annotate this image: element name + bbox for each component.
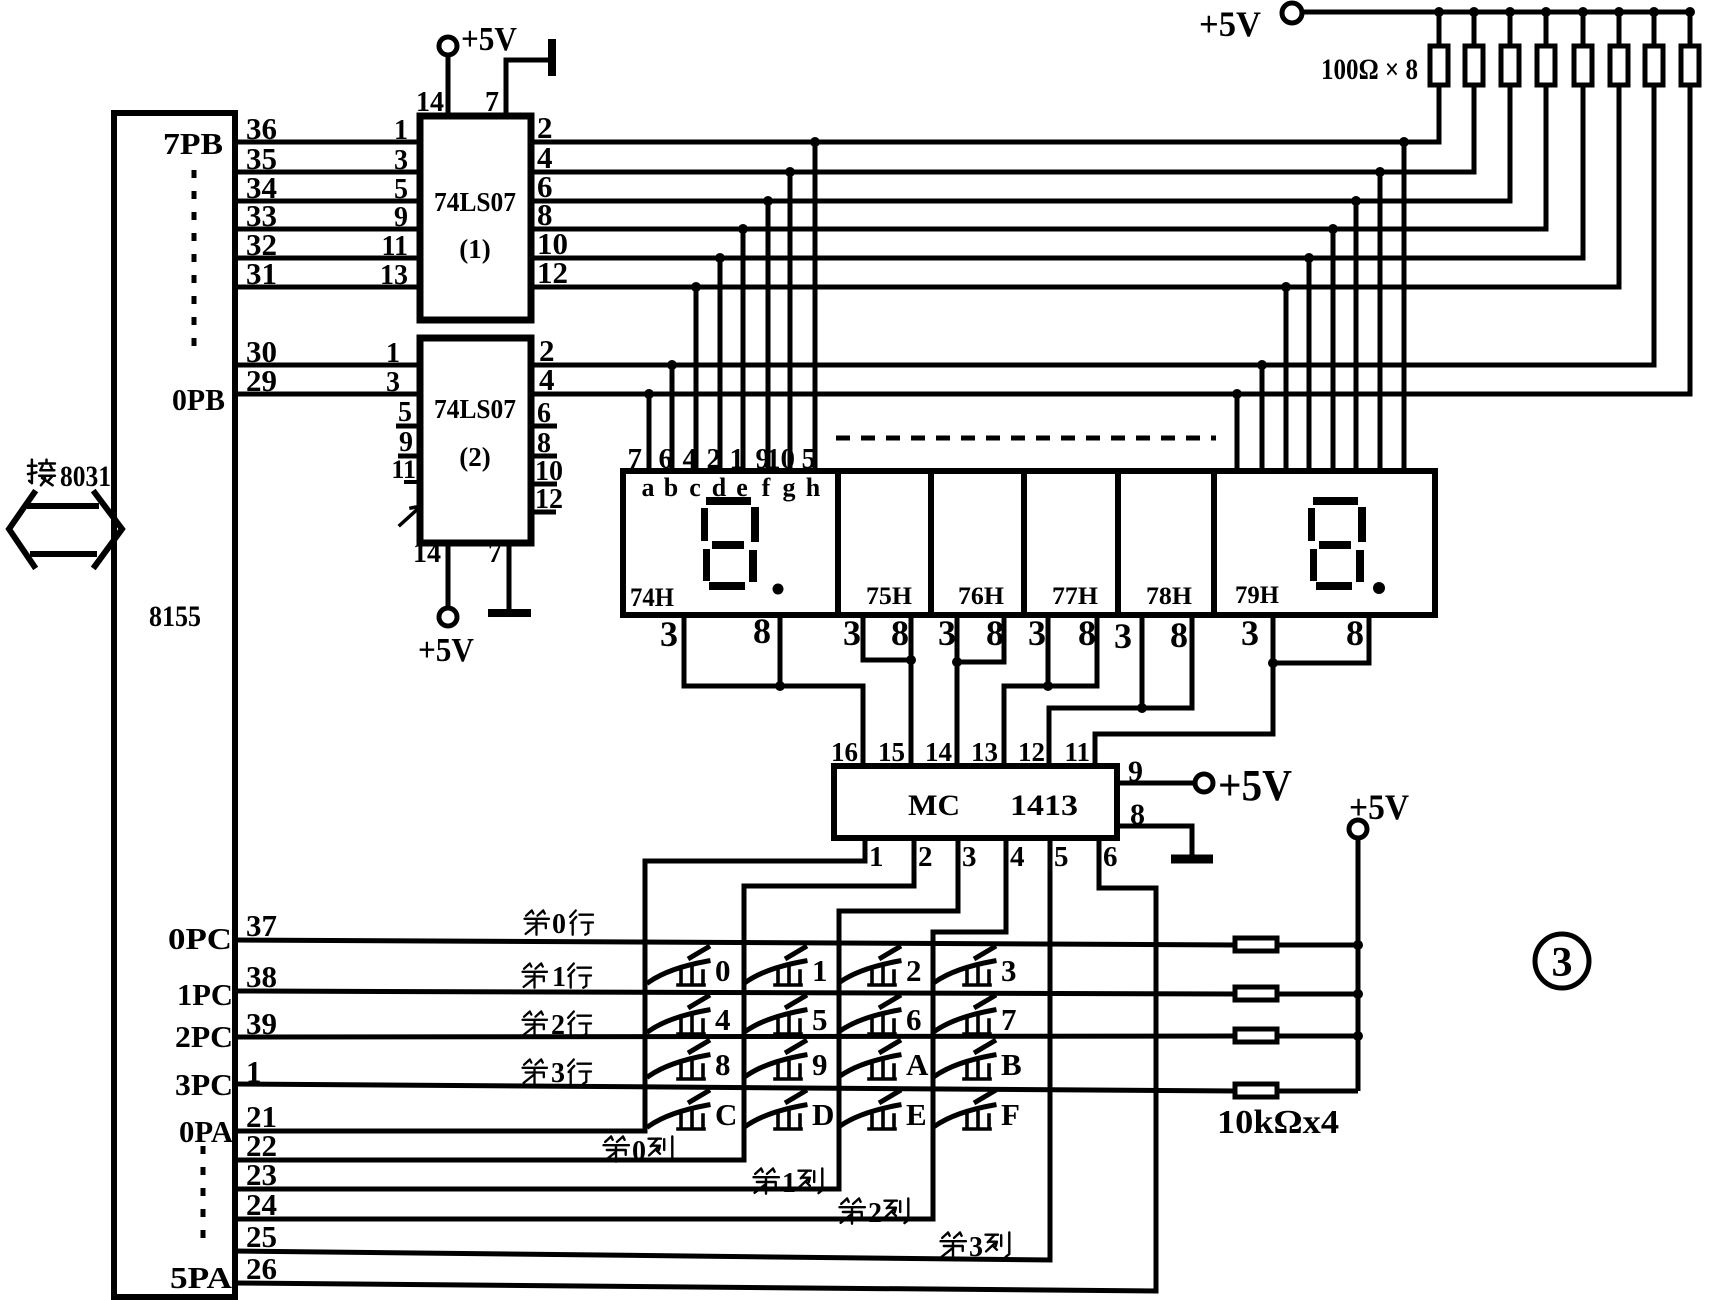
segment net g wire (U2 output to R2) (531, 85, 1474, 172)
resistor R11 10k body (1235, 1029, 1277, 1042)
label row2 第2行 (523, 1012, 548, 1036)
svg-text:8: 8 (1078, 613, 1096, 653)
wire U4 pin 8 to ground (1117, 826, 1192, 855)
svg-text:2: 2 (918, 841, 933, 873)
svg-text:+5V: +5V (1349, 787, 1409, 827)
svg-text:78H: 78H (1146, 583, 1193, 610)
svg-text:8031: 8031 (60, 460, 111, 493)
resistor R2 100ohm lead (1472, 12, 1477, 46)
key 0 (switch) (649, 946, 731, 988)
svg-text:77H: 77H (1052, 583, 1099, 610)
svg-text:14: 14 (413, 538, 441, 569)
wire U4 pin 2 to column 1 (744, 838, 914, 1160)
junction dot +5V bus at R6 (1614, 7, 1624, 17)
resistor R9 10k body (1235, 938, 1277, 951)
key 1 (switch) (746, 946, 828, 988)
wire U4 pin 6 route (1099, 838, 1156, 1291)
label row0 第0行 (525, 911, 550, 935)
resistor R8 100ohm lead (1688, 12, 1693, 46)
svg-text:2: 2 (868, 1198, 882, 1229)
U3 pin 10 stub (531, 482, 557, 487)
IC U3 74LS07(2) body (420, 338, 531, 543)
junction dot +5V keypad bus row 0 (1353, 940, 1363, 950)
key E (switch) (840, 1090, 927, 1132)
wire U3 pin 7 to ground (507, 543, 512, 610)
svg-text:10: 10 (766, 443, 795, 475)
svg-text:1: 1 (812, 953, 828, 988)
junction dot net a left display (644, 389, 654, 399)
segment net c wire (U2 output to R6) (531, 85, 1619, 287)
display DS2 75H body (838, 471, 931, 615)
wire 8155 pin 38 keypad row 1 (235, 991, 1235, 994)
junction dot net f left display (763, 196, 773, 206)
resistor R7 100ohm body (1645, 46, 1663, 85)
svg-text:5: 5 (394, 174, 408, 205)
svg-text:F: F (1001, 1097, 1020, 1132)
svg-text:3: 3 (1114, 616, 1132, 656)
junction dot +5V bus at R1 (1434, 7, 1444, 17)
+5V terminal (U2 pin 14) (439, 37, 457, 55)
resistor R12 10k body (1235, 1084, 1277, 1097)
junction dot net e left display (738, 224, 748, 234)
wire U2 pin 7 to ground (506, 60, 547, 116)
IC U4 MC1413 body (834, 766, 1117, 838)
svg-text:7PB: 7PB (163, 126, 223, 161)
U3 pin 11 stub (404, 480, 420, 484)
resistor R6 100ohm lead (1617, 12, 1622, 46)
U3 pin 12 stub (531, 510, 556, 515)
svg-text:8: 8 (1170, 615, 1188, 655)
resistor R4 100ohm body (1537, 46, 1555, 85)
svg-text:2: 2 (707, 443, 722, 475)
junction dot DS6 common (1268, 658, 1278, 668)
junction dot net a right display (1232, 389, 1242, 399)
wire segment f drop to DS6 79H (1354, 201, 1359, 471)
+5V bus wire (top) (1302, 10, 1692, 15)
wire DS2 pin 8 to U4 pin 15 (909, 615, 914, 766)
junction dot +5V bus at R2 (1469, 7, 1479, 17)
wire 8155 pin 33 to U2 pin 9 (235, 227, 420, 232)
U3 pin 5 stub (396, 424, 420, 429)
U3 pin 8 stub (531, 454, 557, 459)
wire 8155 pin 36 to U2 pin 1 (235, 140, 420, 145)
wire 8155 pin 34 to U2 pin 5 (235, 199, 420, 204)
DS1 digit 8 (701, 497, 759, 590)
junction dot net g left display (785, 167, 795, 177)
svg-text:g: g (783, 473, 796, 502)
junction dot net b right display (1257, 360, 1267, 370)
svg-text:3: 3 (938, 613, 956, 653)
svg-text:6: 6 (659, 443, 674, 475)
junction dot net f right display (1351, 196, 1361, 206)
wire segment e drop to DS6 79H (1331, 229, 1336, 471)
svg-text:5: 5 (812, 1002, 828, 1037)
junction dot DS4 common (1043, 681, 1053, 691)
svg-text:15: 15 (878, 737, 905, 767)
junction dot net e right display (1328, 224, 1338, 234)
junction dot +5V bus at R5 (1578, 7, 1588, 17)
junction dot +5V keypad bus row 2 (1353, 1031, 1363, 1041)
svg-text:8: 8 (986, 613, 1004, 653)
wire segment e drop to DS1 74H (741, 229, 746, 471)
svg-text:E: E (906, 1097, 927, 1132)
svg-text:1: 1 (869, 841, 884, 873)
wire DS6 pin 3 drop (1271, 615, 1276, 734)
wire DS2 pin 3 drop (863, 615, 911, 660)
wire U4 pin 4 to column 3 (933, 838, 1006, 1219)
resistor R5 100ohm lead (1581, 12, 1586, 46)
wire DS1 common to U4 pin 16 (684, 686, 863, 766)
svg-text:3: 3 (1241, 613, 1259, 653)
resistor R5 100ohm body (1574, 46, 1592, 85)
junction dot DS2 common (906, 655, 916, 665)
svg-text:6: 6 (1103, 841, 1118, 873)
svg-text:75H: 75H (866, 583, 913, 610)
wire 8155 pin 30 to U3 pin 1 (235, 363, 420, 368)
svg-text:7: 7 (488, 538, 502, 569)
svg-text:1: 1 (730, 443, 745, 475)
svg-text:1: 1 (386, 338, 400, 369)
wire 8155 pin 31 to U2 pin 13 (235, 285, 420, 290)
svg-text:C: C (715, 1097, 737, 1132)
svg-text:2: 2 (551, 1010, 565, 1041)
label col0 第0列 (604, 1137, 629, 1162)
resistor R7 100ohm lead (1652, 12, 1657, 46)
wire 8155 pin 35 to U2 pin 3 (235, 170, 420, 175)
DS1 decimal point (773, 584, 784, 595)
ground symbol (U4 pin 8) (1171, 855, 1213, 864)
junction dot net h right display (1399, 137, 1409, 147)
svg-text:0PC: 0PC (168, 921, 232, 956)
wire row 3 resistor to +5V bus (1277, 1089, 1358, 1094)
wire DS3 pin 3 to U4 pin 14 (955, 615, 960, 766)
junction dot +5V bus at R8 (1685, 7, 1695, 17)
svg-text:A: A (906, 1047, 929, 1082)
junction dot net c right display (1281, 282, 1291, 292)
IC U2 74LS07(1) body (420, 116, 531, 320)
svg-text:11: 11 (382, 231, 408, 262)
svg-text:74LS07: 74LS07 (434, 394, 516, 424)
svg-text:+5V: +5V (1218, 761, 1292, 810)
wire 8155 pin 24 to column 3 (235, 1217, 933, 1222)
resistor R3 100ohm lead (1508, 12, 1513, 46)
svg-text:(2): (2) (459, 442, 490, 472)
svg-text:100Ω × 8: 100Ω × 8 (1321, 53, 1418, 86)
wire DS5 pin 3 drop (1140, 615, 1145, 708)
U3 pin 9 stub (398, 454, 420, 459)
figure number 3 (circled) (1535, 934, 1589, 988)
8155 internal dashed divider (PB) (192, 170, 197, 358)
svg-text:3: 3 (962, 841, 977, 873)
junction dot DS3 common (952, 657, 962, 667)
svg-text:4: 4 (1010, 841, 1025, 873)
svg-text:1: 1 (394, 115, 408, 146)
wire 8155 pin 29 to U3 pin 3 (235, 392, 420, 397)
wire 8155 pin 37 keypad row 0 (235, 940, 1235, 945)
svg-text:1: 1 (552, 962, 566, 993)
svg-text:3PC: 3PC (175, 1067, 233, 1102)
svg-text:2: 2 (906, 953, 922, 988)
wire segment b drop to DS6 79H (1260, 365, 1265, 471)
svg-text:9: 9 (394, 202, 408, 233)
key 7 (switch) (935, 995, 1017, 1037)
resistor R1 100ohm body (1430, 46, 1448, 85)
svg-text:D: D (812, 1097, 834, 1132)
wire segment a drop to DS6 79H (1235, 394, 1240, 471)
svg-text:a: a (642, 473, 655, 502)
junction dot net d right display (1304, 253, 1314, 263)
+5V terminal (segment pull-up bus) (1282, 3, 1302, 23)
svg-text:14: 14 (925, 737, 952, 767)
wire U4 pin 9 to +5V (1117, 781, 1195, 786)
wire segment d drop to DS1 74H (718, 258, 723, 471)
+5V terminal (U3 pin 14) (439, 608, 457, 626)
wire segment a drop to DS1 74H (647, 394, 652, 471)
label col1 第1列 (754, 1169, 779, 1194)
svg-text:3: 3 (660, 614, 678, 654)
label col3 第3列 (941, 1233, 966, 1258)
wire segment f drop to DS1 74H (766, 201, 771, 471)
svg-text:+5V: +5V (1199, 4, 1261, 44)
svg-text:74LS07: 74LS07 (434, 187, 516, 217)
wire 8155 pin 1 keypad row 3 (235, 1084, 1235, 1091)
key 6 (switch) (840, 995, 922, 1037)
svg-text:12: 12 (1018, 737, 1045, 767)
svg-text:8: 8 (753, 611, 771, 651)
svg-text:3: 3 (394, 145, 408, 176)
DS6 digit 8 (1308, 497, 1366, 590)
svg-text:13: 13 (971, 737, 998, 767)
wire segment h drop to DS6 79H (1402, 142, 1407, 471)
wire segment g drop to DS6 79H (1378, 172, 1383, 471)
wire DS4 pin 8 drop (1004, 615, 1097, 766)
junction dot +5V bus at R4 (1541, 7, 1551, 17)
bus arrow to 8031 (double-headed) (9, 493, 34, 566)
wire 8155 pin 22 to column 1 (235, 1158, 744, 1163)
key 4 (switch) (649, 995, 731, 1037)
wire row 1 resistor to +5V bus (1277, 992, 1358, 997)
omission dashed line between displays (836, 436, 1216, 441)
junction dot net d left display (715, 253, 725, 263)
resistor R6 100ohm body (1610, 46, 1628, 85)
key 5 (switch) (746, 995, 828, 1037)
display DS3 76H body (931, 471, 1024, 615)
resistor R2 100ohm body (1465, 46, 1483, 85)
svg-text:3: 3 (1028, 613, 1046, 653)
DS6 decimal point (1373, 582, 1385, 594)
wire DS6 pin 8 drop (1273, 615, 1369, 663)
wire 8155 pin 32 to U2 pin 11 (235, 256, 420, 261)
svg-text:7: 7 (485, 87, 499, 118)
svg-text:7: 7 (628, 443, 643, 475)
resistor R10 10k body (1235, 987, 1277, 1000)
wire 8155 pin 26 to U4 pin 6 (235, 1283, 1156, 1291)
svg-text:+5V: +5V (418, 632, 474, 669)
svg-text:11: 11 (1064, 737, 1090, 767)
wire 8155 pin 23 to column 2 (235, 1187, 839, 1192)
key 2 (switch) (840, 946, 922, 988)
svg-text:3: 3 (551, 1058, 565, 1089)
segment net f wire (U2 output to R3) (531, 85, 1510, 201)
wire row 0 resistor to +5V bus (1277, 943, 1358, 948)
wire U2 pin 14 to +5V (446, 56, 451, 116)
wire segment g drop to DS1 74H (788, 172, 793, 471)
junction dot net b left display (667, 360, 677, 370)
svg-text:6: 6 (906, 1002, 922, 1037)
resistor R8 100ohm body (1681, 46, 1699, 85)
+5V terminal (keypad pull-ups) (1349, 820, 1367, 838)
display DS6 79H body (1214, 471, 1435, 615)
display DS5 78H body (1118, 471, 1214, 615)
key 8 (switch) (649, 1040, 731, 1082)
svg-text:11: 11 (391, 455, 416, 484)
junction dot net g right display (1375, 167, 1385, 177)
svg-text:0PA: 0PA (179, 1114, 234, 1149)
wire DS4 pin 3 drop (1046, 615, 1051, 686)
svg-text:13: 13 (380, 260, 408, 291)
junction dot +5V bus at R7 (1649, 7, 1659, 17)
junction dot DS1 common (775, 681, 785, 691)
svg-text:16: 16 (831, 737, 858, 767)
svg-text:3: 3 (1552, 940, 1573, 986)
svg-text:1PC: 1PC (177, 977, 233, 1012)
svg-text:(1): (1) (459, 234, 490, 264)
svg-text:8: 8 (891, 613, 909, 653)
svg-text:+5V: +5V (461, 21, 517, 58)
wire 8155 pin 25 to U4 pin 5 (235, 1251, 1050, 1260)
junction dot DS5 common (1137, 703, 1147, 713)
svg-text:8: 8 (715, 1047, 731, 1082)
label col2 第2列 (840, 1199, 865, 1224)
svg-text:4: 4 (715, 1002, 731, 1037)
display DS1 74H body (623, 471, 838, 615)
svg-text:3: 3 (386, 367, 400, 398)
ground symbol (U3 pin 7) (488, 609, 531, 617)
wire DS3 pin 8 drop (957, 615, 1004, 662)
key 9 (switch) (746, 1040, 828, 1082)
key 3 (switch) (935, 946, 1017, 988)
stray arrow mark near U3 (400, 506, 421, 525)
svg-text:2PC: 2PC (175, 1019, 233, 1054)
resistor R4 100ohm lead (1544, 12, 1549, 46)
svg-text:9: 9 (399, 427, 413, 458)
key B (switch) (935, 1040, 1022, 1082)
svg-text:0: 0 (715, 953, 731, 988)
junction dot +5V bus at R3 (1505, 7, 1515, 17)
junction dot net h left display (810, 137, 820, 147)
8155 internal dashed divider (PA) (201, 1146, 206, 1250)
svg-text:9: 9 (812, 1047, 828, 1082)
label row3 第3行 (523, 1060, 548, 1084)
IC 8155 body (114, 113, 235, 1297)
label 接8031 (28, 460, 55, 486)
wire row 2 resistor to +5V bus (1277, 1034, 1358, 1039)
+5V terminal (U4 pin 9) (1195, 774, 1213, 792)
svg-text:14: 14 (416, 87, 444, 118)
key C (switch) (649, 1090, 737, 1132)
label row1 第1行 (523, 964, 548, 988)
resistor R3 100ohm body (1501, 46, 1519, 85)
svg-text:79H: 79H (1235, 582, 1280, 609)
segment net d wire (U2 output to R5) (531, 85, 1583, 258)
segment net h wire (U2 output to R1) (531, 85, 1439, 142)
svg-text:76H: 76H (958, 583, 1005, 610)
key F (switch) (935, 1090, 1020, 1132)
+5V keypad pull-up bus (1356, 838, 1361, 1091)
svg-text:8: 8 (1346, 613, 1364, 653)
svg-text:1: 1 (782, 1168, 796, 1199)
junction dot +5V keypad bus row 1 (1353, 989, 1363, 999)
svg-text:5PA: 5PA (170, 1260, 233, 1295)
wire 8155 pin 39 keypad row 2 (235, 1036, 1235, 1037)
svg-text:5: 5 (1054, 841, 1069, 873)
key D (switch) (746, 1090, 834, 1132)
svg-text:0PB: 0PB (172, 382, 225, 417)
wire segment d drop to DS6 79H (1307, 258, 1312, 471)
svg-text:5: 5 (802, 443, 817, 475)
resistor R1 100ohm lead (1437, 12, 1442, 46)
wire U4 pin 3 to column 2 (839, 838, 958, 1189)
svg-text:B: B (1001, 1047, 1022, 1082)
wire segment c drop to DS1 74H (694, 287, 699, 471)
wire DS1 pin 8 drop (778, 615, 783, 686)
svg-text:c: c (689, 473, 701, 502)
svg-text:3: 3 (1001, 953, 1017, 988)
svg-text:0: 0 (552, 909, 566, 940)
U3 pin 6 stub (531, 424, 557, 429)
junction dot net c left display (691, 282, 701, 292)
wire segment b drop to DS1 74H (670, 365, 675, 471)
svg-text:8155: 8155 (149, 600, 201, 633)
svg-text:f: f (762, 473, 771, 502)
svg-text:74H: 74H (630, 583, 674, 612)
wire DS6 common to U4 pin 11 (1095, 734, 1273, 766)
svg-text:10kΩx4: 10kΩx4 (1217, 1104, 1339, 1141)
wire DS1 pin 3 drop (682, 615, 687, 686)
svg-text:3: 3 (969, 1232, 983, 1263)
svg-text:0: 0 (632, 1136, 646, 1167)
svg-text:4: 4 (683, 443, 698, 475)
segment net e wire (U2 output to R4) (531, 85, 1546, 229)
svg-text:5: 5 (398, 397, 412, 428)
wire U3 pin 14 to +5V (446, 543, 451, 608)
display DS4 77H body (1024, 471, 1118, 615)
wire segment h drop to DS1 74H (813, 142, 818, 471)
wire U4 pin 5 drop (1048, 838, 1053, 1260)
svg-text:7: 7 (1001, 1002, 1017, 1037)
wire 8155 pin 21 to column 0 (235, 1129, 645, 1134)
wire U4 pin 1 to column 0 (645, 838, 865, 1131)
wire DS5 pin 8 drop (1049, 615, 1192, 766)
svg-text:3: 3 (843, 613, 861, 653)
svg-text:1413: 1413 (1010, 789, 1078, 822)
key A (switch) (840, 1040, 929, 1082)
svg-text:h: h (806, 473, 821, 502)
svg-text:MC: MC (908, 789, 960, 822)
svg-text:b: b (664, 473, 678, 502)
segment net b wire (U3 output to R7) (531, 85, 1654, 365)
wire segment c drop to DS6 79H (1284, 287, 1289, 471)
segment net a wire (U3 output to R8) (531, 85, 1690, 394)
ground symbol (U2 pin 7) (548, 39, 556, 76)
